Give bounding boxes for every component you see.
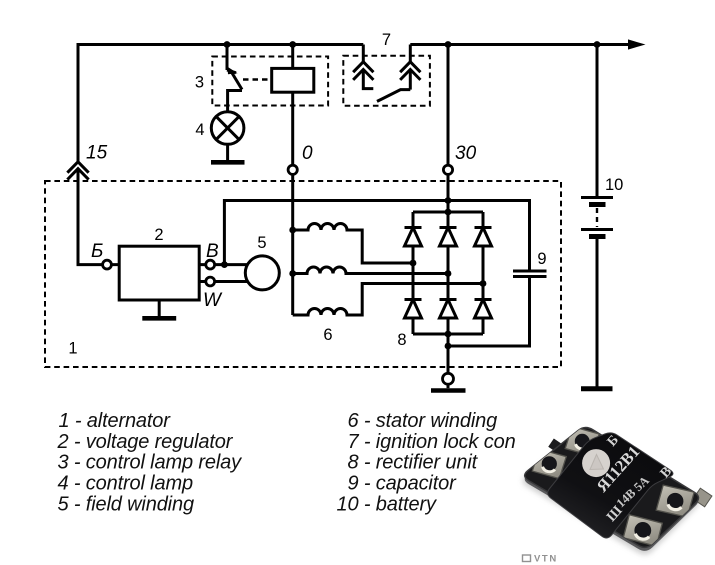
svg-text:30: 30 bbox=[455, 143, 477, 164]
control lamp 4 bbox=[211, 112, 244, 145]
module mounting tabs (clipped to plate) bbox=[532, 427, 694, 547]
module tab right bbox=[656, 485, 694, 517]
relay switch lower lead bbox=[228, 91, 242, 113]
wire: B riser and output link to capacitor bbox=[224, 201, 529, 271]
rectifier middle column bbox=[447, 212, 450, 334]
rectifier top bus bbox=[413, 211, 483, 214]
rectifier bottom bus bbox=[413, 333, 483, 336]
junction: top bus / relay switch bbox=[224, 41, 231, 48]
module side bevel bbox=[525, 430, 699, 551]
svg-text:Б: Б bbox=[91, 241, 103, 262]
svg-text:1 - alternator: 1 - alternator bbox=[59, 410, 172, 432]
module drop shadow bbox=[523, 432, 699, 554]
ignition switch arm bbox=[377, 90, 410, 102]
module tab holes bbox=[542, 434, 684, 539]
rectifier right column bbox=[482, 212, 485, 334]
module terminal blade right bbox=[693, 488, 712, 507]
relay switch stub wire bbox=[226, 45, 229, 71]
battery cell 1 long plate bbox=[581, 196, 613, 199]
diode D3 bbox=[475, 228, 492, 247]
junction: top bus / middle column bbox=[445, 209, 452, 216]
alternator dashed box 1 bbox=[45, 181, 561, 367]
junction: top bus / relay coil bbox=[289, 41, 296, 48]
svg-text:7 - ignition lock con: 7 - ignition lock con bbox=[348, 431, 516, 453]
connector 15 chevron symbol bbox=[68, 162, 87, 179]
junction: common / coil B bbox=[289, 270, 296, 277]
svg-text:4 - control lamp: 4 - control lamp bbox=[58, 473, 193, 495]
ignition connector left chevrons bbox=[354, 62, 372, 79]
svg-text:6 - stator winding: 6 - stator winding bbox=[348, 410, 498, 432]
control lamp relay dashed box 3 bbox=[212, 57, 328, 106]
terminal Б circle bbox=[103, 260, 112, 269]
svg-text:VTN: VTN bbox=[534, 554, 558, 565]
svg-text:10: 10 bbox=[605, 176, 623, 194]
module centre emblem bbox=[582, 449, 610, 477]
svg-text:8: 8 bbox=[397, 331, 406, 349]
ignition lock dashed box 7 bbox=[343, 56, 430, 106]
junction: phase B / middle column bbox=[445, 270, 452, 277]
battery bottom bar bbox=[581, 386, 613, 391]
diode D4 bbox=[405, 300, 422, 319]
battery cell 1 short plate bbox=[589, 202, 606, 207]
battery inter-cell dashed link bbox=[596, 208, 598, 227]
svg-text:5 - field winding: 5 - field winding bbox=[58, 494, 194, 516]
relay coil bbox=[272, 68, 314, 92]
capacitor 9 bottom plate bbox=[513, 275, 547, 278]
relay switch arm bbox=[231, 71, 243, 90]
field winding circle 5 bbox=[245, 256, 279, 290]
wire: top bus left segment bbox=[78, 45, 363, 162]
battery bottom lead bbox=[596, 239, 599, 387]
svg-text:7: 7 bbox=[382, 31, 391, 49]
regulator ground bar bbox=[142, 316, 176, 321]
junction: bottom bus / middle column bbox=[445, 331, 452, 338]
output arrowhead bbox=[628, 39, 646, 49]
terminal W circle bbox=[206, 277, 215, 286]
wire: relay coil riser bbox=[291, 45, 294, 70]
ignition connector left lead bbox=[362, 45, 365, 62]
diode D1 bbox=[405, 228, 422, 247]
svg-text:W: W bbox=[203, 290, 223, 311]
module tab top bbox=[565, 427, 599, 457]
wire: terminal W to field winding bbox=[199, 280, 250, 283]
terminal 0 circle bbox=[288, 165, 297, 174]
svg-text:9: 9 bbox=[537, 250, 546, 268]
ignition connector right chevrons bbox=[401, 62, 419, 79]
capacitor 9 top plate bbox=[513, 270, 547, 273]
ground bar bbox=[431, 388, 466, 393]
voltage regulator box 2 bbox=[119, 246, 199, 300]
diode D6 bbox=[475, 300, 492, 319]
terminal 30 circle bbox=[443, 165, 452, 174]
svg-text:6: 6 bbox=[323, 326, 332, 344]
svg-text:4: 4 bbox=[195, 121, 204, 139]
rectifier left column bbox=[412, 212, 415, 334]
wire: terminal B to field winding bbox=[199, 263, 250, 266]
junction: phase A / left column bbox=[410, 260, 417, 267]
svg-text:0: 0 bbox=[302, 143, 313, 164]
photo: voltage regulator module YA112V1 bbox=[523, 427, 712, 555]
wire: top bus right segment bbox=[410, 43, 640, 46]
module tab bottom bbox=[623, 515, 662, 547]
svg-text:10 - battery: 10 - battery bbox=[337, 494, 438, 516]
svg-text:9 - capacitor: 9 - capacitor bbox=[348, 473, 458, 495]
ground terminal circle bbox=[443, 373, 454, 384]
stator coil C bbox=[293, 284, 483, 316]
terminal B circle bbox=[206, 260, 215, 269]
diode D2 bbox=[440, 228, 457, 247]
wire: left vertical lower part bbox=[77, 169, 80, 265]
stator coil B bbox=[293, 267, 448, 274]
lamp ground bar bbox=[211, 160, 245, 165]
svg-text:1: 1 bbox=[68, 340, 77, 358]
svg-text:B: B bbox=[206, 241, 219, 262]
regulator ground stem bbox=[158, 300, 161, 317]
junction: output link / 30 riser bbox=[445, 197, 452, 204]
junction: common / coil A bbox=[289, 227, 296, 234]
module base plate bbox=[525, 428, 699, 548]
wire: terminal 30 riser bbox=[447, 45, 450, 213]
wire: capacitor bottom lead bbox=[448, 277, 530, 347]
battery cell 2 short plate bbox=[589, 234, 606, 239]
diode D5 bbox=[440, 300, 457, 319]
svg-text:5: 5 bbox=[257, 234, 266, 252]
module centre block bbox=[548, 433, 673, 538]
battery cell 2 long plate bbox=[581, 228, 613, 231]
wire: relay coil to terminal 0 bbox=[291, 92, 294, 169]
module tab left bbox=[532, 449, 566, 479]
junction: top bus / battery bbox=[594, 41, 601, 48]
lamp ground stem bbox=[226, 144, 229, 161]
module edge protrusion left bbox=[548, 438, 564, 453]
junction: phase C / right column bbox=[480, 280, 487, 287]
battery riser wire bbox=[596, 45, 599, 197]
ignition connector right lead bbox=[409, 45, 412, 62]
wire: 0 riser / stator common bbox=[291, 169, 294, 315]
relay switch fixed contact tick bbox=[227, 70, 236, 73]
junction: ground node bbox=[445, 343, 452, 350]
svg-text:3: 3 bbox=[195, 74, 204, 92]
wire: left vertical to terminal B (Cyrillic) bbox=[78, 263, 119, 264]
relay actuation dashed link bbox=[243, 78, 272, 81]
svg-text:15: 15 bbox=[86, 143, 108, 164]
junction: top bus / terminal 30 riser bbox=[445, 41, 452, 48]
ground stem bbox=[447, 384, 450, 388]
junction: B riser bbox=[221, 261, 228, 268]
stator coil A bbox=[293, 224, 413, 263]
svg-text:8 - rectifier unit: 8 - rectifier unit bbox=[348, 452, 479, 474]
svg-text:2 - voltage regulator: 2 - voltage regulator bbox=[57, 431, 234, 453]
wire: rectifier output to ground bbox=[447, 334, 450, 374]
svg-text:2: 2 bbox=[154, 226, 163, 244]
svg-text:3 - control lamp relay: 3 - control lamp relay bbox=[58, 452, 243, 474]
VTN watermark bbox=[523, 554, 558, 565]
